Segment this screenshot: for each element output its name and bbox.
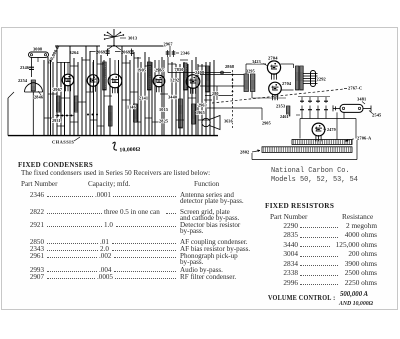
svg-text:1965: 1965 bbox=[196, 110, 205, 115]
svg-text:2545: 2545 bbox=[372, 113, 382, 118]
svg-text:3423: 3423 bbox=[252, 59, 261, 64]
svg-text:2292: 2292 bbox=[317, 77, 326, 82]
svg-text:1292: 1292 bbox=[170, 78, 179, 83]
svg-text:2967: 2967 bbox=[53, 87, 63, 92]
svg-text:2704: 2704 bbox=[282, 81, 292, 86]
svg-text:2479: 2479 bbox=[327, 127, 336, 132]
svg-text:2706-A: 2706-A bbox=[357, 136, 372, 141]
svg-text:2346: 2346 bbox=[181, 51, 191, 56]
svg-text:1346: 1346 bbox=[127, 105, 136, 110]
svg-text:2254: 2254 bbox=[18, 78, 28, 83]
svg-text:3295: 3295 bbox=[246, 68, 255, 73]
svg-text:2341: 2341 bbox=[139, 96, 148, 101]
svg-text:2967: 2967 bbox=[164, 41, 174, 46]
svg-text:2353: 2353 bbox=[276, 104, 285, 109]
svg-text:2931: 2931 bbox=[52, 118, 61, 123]
svg-text:7850: 7850 bbox=[175, 67, 184, 72]
svg-text:3008: 3008 bbox=[33, 46, 42, 51]
svg-text:500,000 Ω: 500,000 Ω bbox=[47, 44, 61, 65]
svg-text:1015: 1015 bbox=[159, 107, 168, 112]
svg-text:3264: 3264 bbox=[70, 50, 80, 55]
svg-text:10,000Ω: 10,000Ω bbox=[119, 147, 140, 154]
svg-text:2461: 2461 bbox=[280, 114, 289, 119]
svg-text:3440: 3440 bbox=[168, 95, 177, 100]
svg-text:3636: 3636 bbox=[224, 119, 233, 124]
svg-text:1905: 1905 bbox=[137, 68, 146, 73]
svg-text:2767-C: 2767-C bbox=[348, 86, 362, 91]
svg-text:2704: 2704 bbox=[268, 56, 278, 61]
svg-text:2963: 2963 bbox=[198, 103, 207, 108]
svg-text:2802: 2802 bbox=[240, 150, 249, 155]
svg-text:2825: 2825 bbox=[159, 119, 168, 124]
svg-text:CHASSIS: CHASSIS bbox=[52, 140, 74, 145]
svg-text:2868: 2868 bbox=[225, 64, 234, 69]
svg-text:2346: 2346 bbox=[20, 65, 30, 70]
svg-text:2965: 2965 bbox=[155, 68, 164, 73]
svg-text:2905: 2905 bbox=[262, 121, 271, 126]
svg-text:2846: 2846 bbox=[34, 95, 44, 100]
svg-text:280: 280 bbox=[212, 91, 219, 96]
svg-text:3013: 3013 bbox=[128, 36, 137, 41]
svg-text:3481: 3481 bbox=[357, 97, 366, 102]
